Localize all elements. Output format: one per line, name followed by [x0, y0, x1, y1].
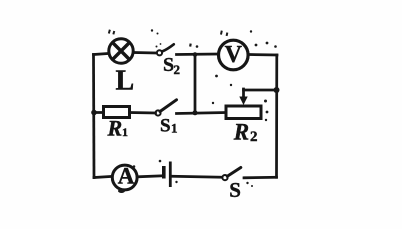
svg-text:L: L	[116, 66, 135, 97]
svg-text:2: 2	[250, 129, 258, 145]
svg-text:R: R	[107, 115, 123, 140]
svg-text:1: 1	[122, 125, 128, 139]
svg-text:S: S	[229, 178, 241, 202]
svg-text:V: V	[225, 42, 243, 68]
svg-text:1: 1	[171, 121, 178, 136]
svg-text:S: S	[163, 54, 174, 76]
svg-text:2: 2	[174, 62, 181, 77]
svg-text:A: A	[118, 163, 135, 188]
svg-text:S: S	[160, 115, 171, 136]
svg-text:R: R	[233, 120, 249, 145]
